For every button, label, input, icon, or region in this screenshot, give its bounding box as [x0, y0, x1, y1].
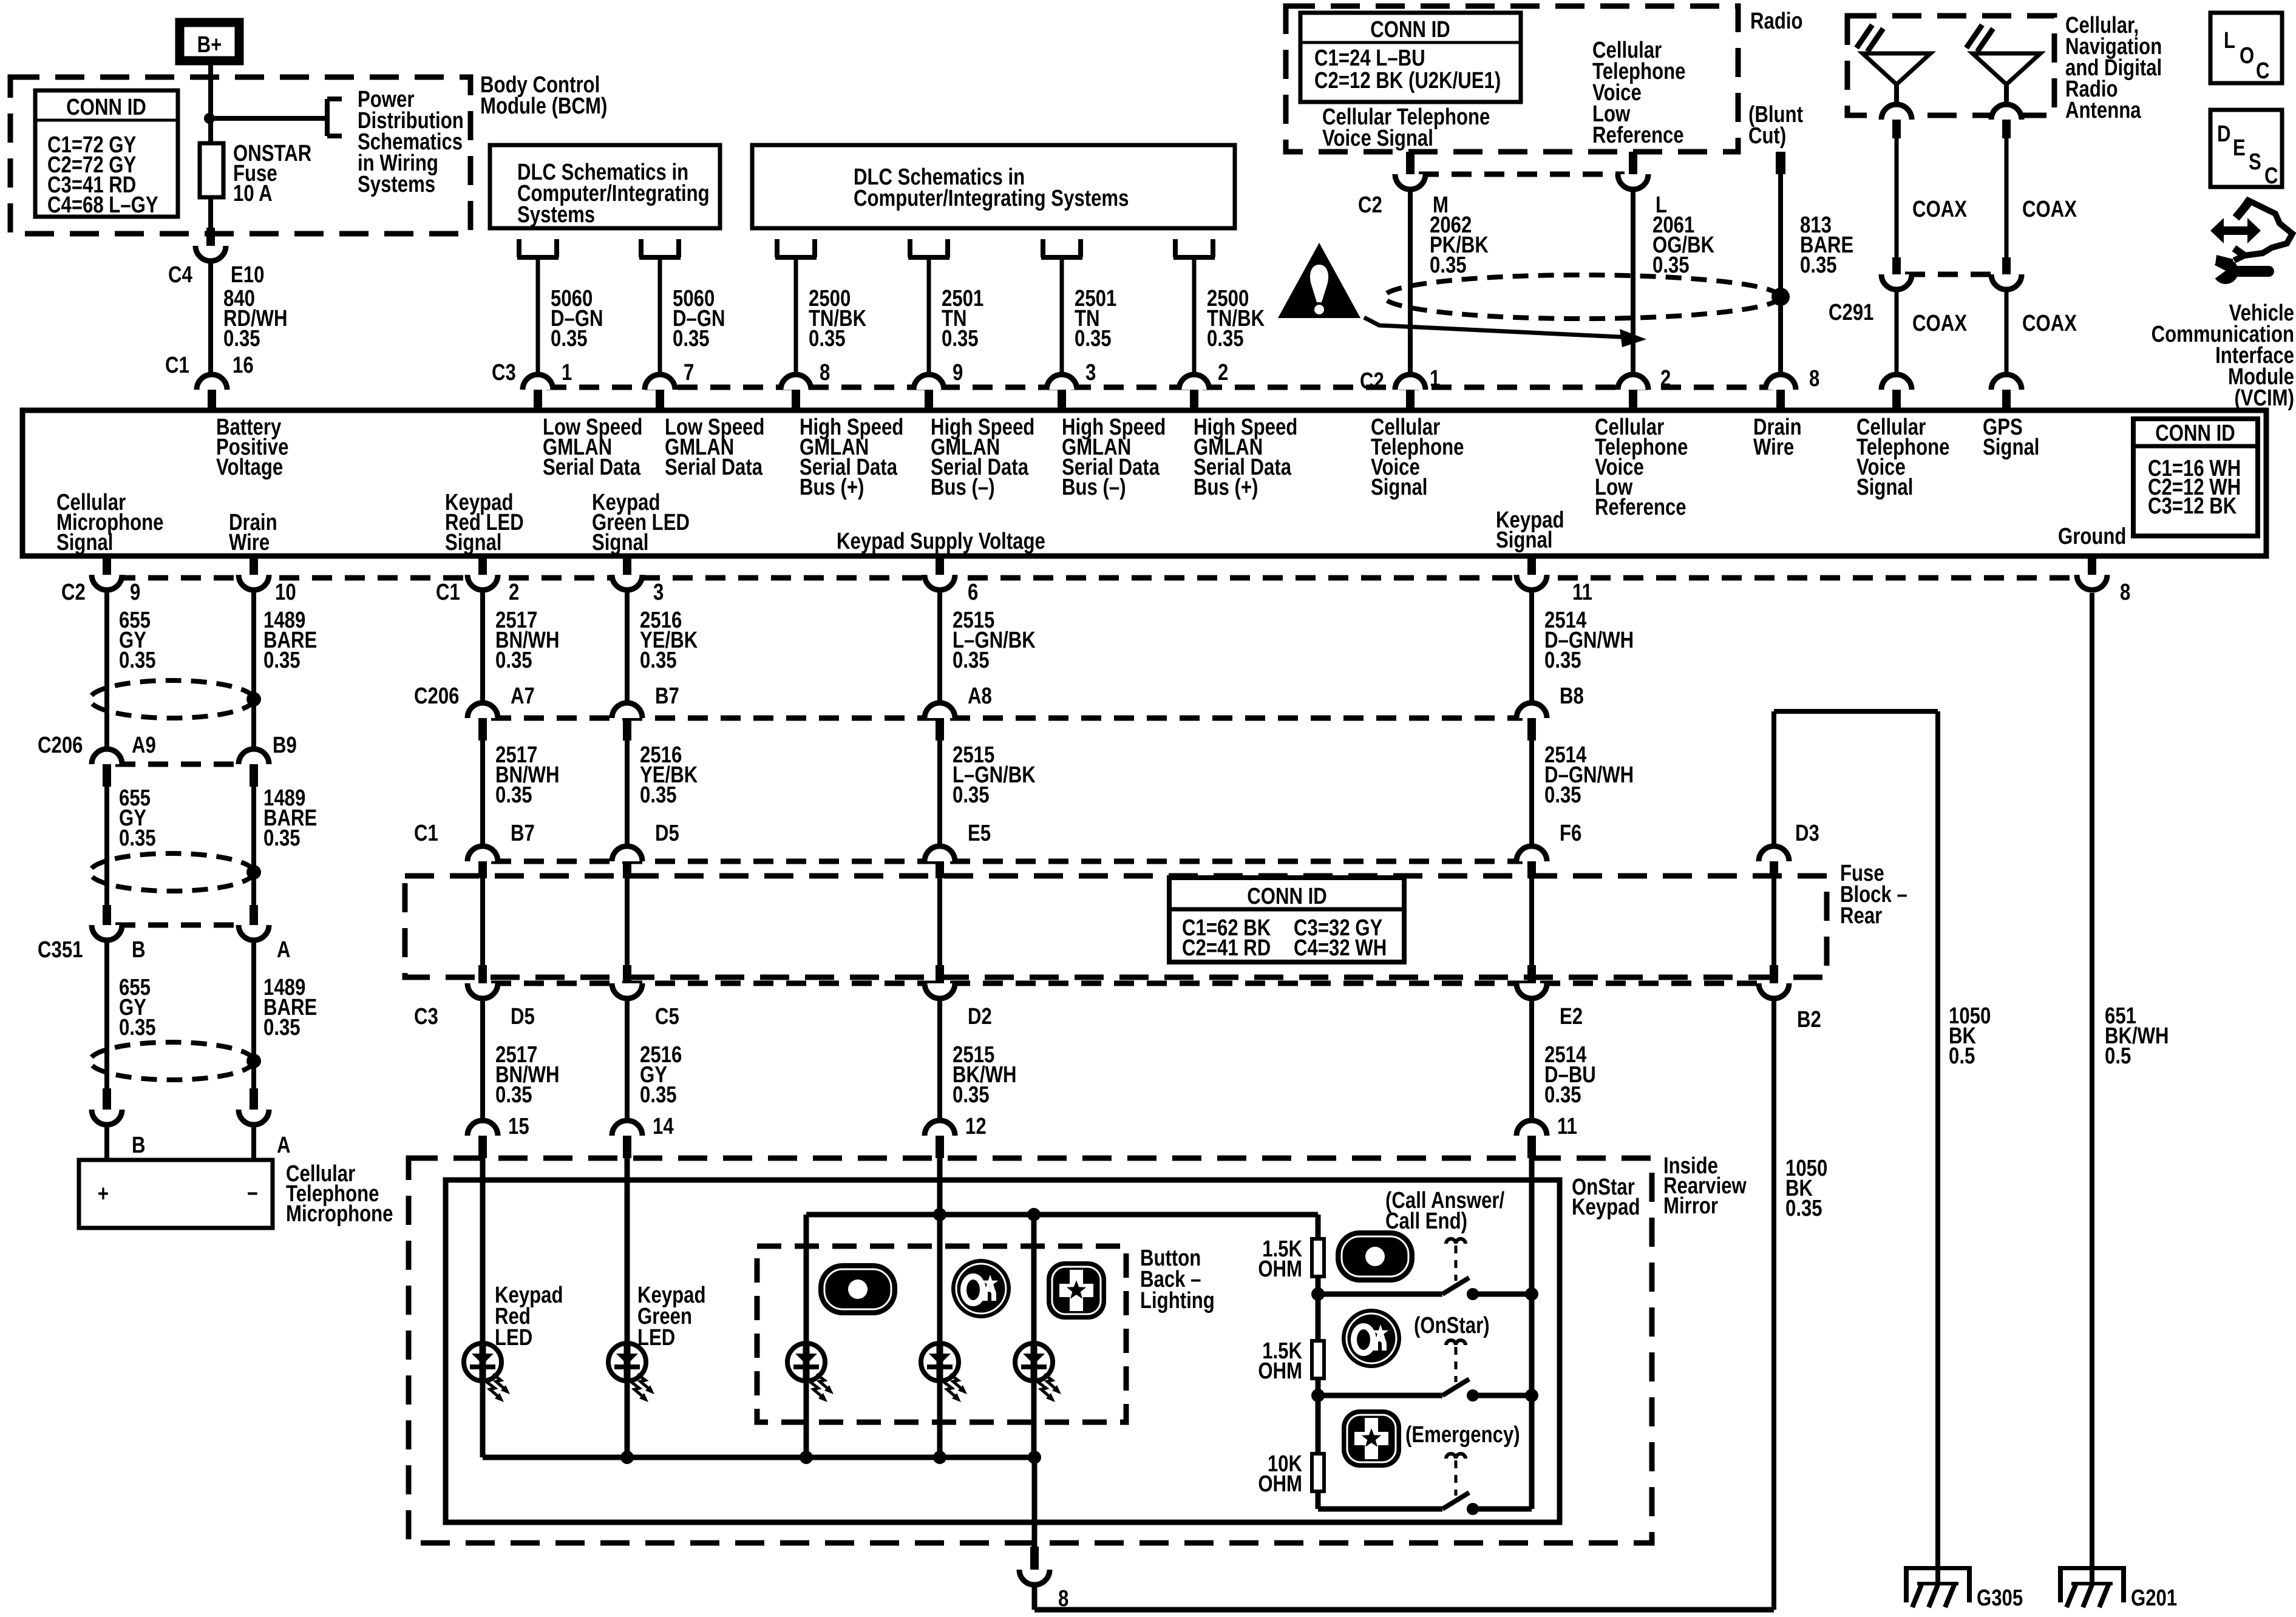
svg-text:+: + — [98, 1181, 109, 1207]
svg-text:B9: B9 — [273, 733, 297, 758]
svg-text:B8: B8 — [1560, 683, 1584, 709]
svg-text:LED: LED — [495, 1325, 532, 1351]
svg-text:OHM: OHM — [1258, 1471, 1302, 1497]
svg-text:C4=68 L–GY: C4=68 L–GY — [47, 192, 158, 218]
svg-text:8: 8 — [820, 360, 830, 385]
svg-text:0.35: 0.35 — [1785, 1196, 1822, 1221]
svg-text:0.35: 0.35 — [1207, 326, 1244, 351]
svg-text:11: 11 — [1572, 580, 1592, 605]
svg-text:Ground: Ground — [2058, 524, 2126, 549]
svg-text:Serial Data: Serial Data — [543, 455, 641, 480]
svg-text:A: A — [277, 937, 291, 963]
svg-text:Wire: Wire — [229, 530, 270, 555]
svg-text:CONN ID: CONN ID — [66, 95, 146, 120]
svg-text:Signal: Signal — [56, 530, 113, 555]
svg-text:0.35: 0.35 — [119, 1015, 156, 1040]
svg-text:C1=24 L–BU: C1=24 L–BU — [1314, 46, 1425, 71]
svg-text:Signal: Signal — [1371, 475, 1427, 500]
svg-text:8: 8 — [2120, 580, 2130, 605]
svg-text:B7: B7 — [511, 821, 535, 846]
svg-text:S: S — [2249, 149, 2261, 175]
svg-text:G305: G305 — [1977, 1585, 2023, 1611]
svg-text:Signal: Signal — [1856, 475, 1913, 500]
svg-text:Signal: Signal — [445, 530, 501, 555]
svg-text:Antenna: Antenna — [2065, 98, 2141, 123]
svg-text:Keypad: Keypad — [1572, 1195, 1640, 1220]
svg-text:CONN ID: CONN ID — [1247, 884, 1327, 909]
svg-text:A9: A9 — [132, 733, 156, 758]
svg-text:Cut): Cut) — [1748, 123, 1786, 149]
svg-text:B: B — [132, 937, 146, 963]
svg-text:A: A — [277, 1133, 291, 1158]
svg-text:0.35: 0.35 — [495, 1082, 532, 1108]
svg-text:Rear: Rear — [1840, 903, 1882, 929]
svg-text:B+: B+ — [197, 32, 222, 58]
svg-text:C3: C3 — [492, 360, 516, 385]
svg-text:D: D — [2217, 121, 2231, 147]
svg-text:0.35: 0.35 — [673, 326, 710, 351]
svg-text:C2=12 BK (U2K/UE1): C2=12 BK (U2K/UE1) — [1314, 68, 1501, 93]
svg-text:2: 2 — [1218, 360, 1228, 385]
svg-text:Systems: Systems — [358, 172, 435, 197]
svg-text:C2: C2 — [1360, 368, 1384, 394]
svg-text:C2=41 RD: C2=41 RD — [1182, 935, 1271, 961]
svg-text:D5: D5 — [511, 1004, 535, 1029]
svg-text:0.35: 0.35 — [640, 782, 677, 808]
svg-text:E: E — [2233, 135, 2246, 161]
svg-text:COAX: COAX — [1912, 311, 1967, 336]
svg-text:0.35: 0.35 — [551, 326, 588, 351]
svg-text:0.35: 0.35 — [1544, 648, 1581, 673]
svg-text:9: 9 — [953, 360, 963, 385]
svg-text:G201: G201 — [2131, 1585, 2177, 1611]
svg-text:COAX: COAX — [1912, 197, 1967, 222]
svg-text:0.35: 0.35 — [953, 648, 990, 673]
svg-text:14: 14 — [653, 1114, 674, 1139]
svg-text:CONN ID: CONN ID — [2155, 421, 2235, 446]
svg-text:0.35: 0.35 — [640, 1082, 677, 1108]
svg-text:11: 11 — [1557, 1114, 1577, 1139]
svg-text:Module (BCM): Module (BCM) — [480, 93, 607, 119]
svg-text:B7: B7 — [655, 683, 679, 709]
svg-text:16: 16 — [233, 353, 254, 378]
svg-text:L: L — [2224, 28, 2235, 53]
svg-text:E2: E2 — [1560, 1004, 1583, 1029]
svg-text:E10: E10 — [231, 262, 264, 288]
svg-text:Systems: Systems — [517, 202, 595, 228]
svg-text:OHM: OHM — [1258, 1358, 1302, 1384]
svg-text:COAX: COAX — [2022, 311, 2077, 336]
svg-text:0.35: 0.35 — [1652, 253, 1690, 278]
svg-text:C206: C206 — [38, 733, 83, 758]
svg-text:Lighting: Lighting — [1140, 1288, 1215, 1314]
svg-text:0.35: 0.35 — [119, 648, 156, 673]
svg-text:0.5: 0.5 — [2105, 1043, 2131, 1069]
svg-text:D3: D3 — [1795, 821, 1819, 846]
svg-text:D2: D2 — [968, 1004, 992, 1029]
svg-text:C4=32 WH: C4=32 WH — [1294, 935, 1387, 961]
svg-text:C291: C291 — [1829, 300, 1873, 325]
svg-text:1: 1 — [562, 360, 572, 385]
svg-text:C3: C3 — [414, 1004, 438, 1029]
svg-text:15: 15 — [508, 1114, 529, 1139]
svg-text:10 A: 10 A — [233, 181, 273, 206]
svg-text:0.35: 0.35 — [953, 782, 990, 808]
svg-text:2: 2 — [509, 580, 519, 605]
svg-text:10: 10 — [275, 580, 296, 605]
svg-text:(VCIM): (VCIM) — [2234, 385, 2294, 411]
svg-text:Wire: Wire — [1753, 435, 1794, 460]
svg-text:C3=12 BK: C3=12 BK — [2148, 493, 2237, 519]
svg-text:6: 6 — [968, 580, 978, 605]
svg-text:Signal: Signal — [592, 530, 648, 555]
svg-text:0.35: 0.35 — [1075, 326, 1112, 351]
svg-text:Bus (+): Bus (+) — [1194, 475, 1258, 500]
svg-text:Radio: Radio — [1750, 8, 1803, 34]
svg-text:Signal: Signal — [1983, 435, 2039, 460]
svg-text:Keypad Supply Voltage: Keypad Supply Voltage — [837, 529, 1045, 554]
svg-text:2: 2 — [1660, 366, 1671, 392]
svg-text:−: − — [247, 1181, 258, 1207]
svg-text:0.35: 0.35 — [1544, 782, 1581, 808]
svg-text:Voice Signal: Voice Signal — [1322, 126, 1433, 151]
svg-text:0.35: 0.35 — [1544, 1082, 1581, 1108]
svg-text:7: 7 — [684, 360, 694, 385]
svg-text:COAX: COAX — [2022, 197, 2077, 222]
svg-text:LED: LED — [637, 1325, 675, 1351]
svg-text:0.5: 0.5 — [1949, 1043, 1975, 1069]
svg-text:Serial Data: Serial Data — [665, 455, 763, 480]
svg-text:Computer/Integrating Systems: Computer/Integrating Systems — [854, 186, 1129, 211]
svg-text:Call End): Call End) — [1385, 1209, 1467, 1234]
svg-text:F6: F6 — [1560, 821, 1581, 846]
svg-text:3: 3 — [1085, 360, 1096, 385]
svg-text:Bus (–): Bus (–) — [931, 475, 995, 500]
svg-text:A8: A8 — [968, 683, 992, 709]
svg-text:0.35: 0.35 — [640, 648, 677, 673]
svg-text:C: C — [2256, 58, 2270, 84]
svg-text:CONN ID: CONN ID — [1370, 17, 1450, 42]
svg-text:C4: C4 — [168, 262, 192, 288]
svg-text:0.35: 0.35 — [119, 825, 156, 851]
svg-text:Bus (–): Bus (–) — [1062, 475, 1126, 500]
svg-text:C5: C5 — [655, 1004, 679, 1029]
svg-text:C: C — [2264, 163, 2278, 189]
svg-text:C206: C206 — [414, 683, 459, 709]
svg-text:0.35: 0.35 — [1800, 253, 1837, 278]
svg-text:C1: C1 — [436, 580, 460, 605]
svg-text:B2: B2 — [1797, 1007, 1821, 1032]
svg-text:OHM: OHM — [1258, 1256, 1302, 1282]
svg-text:C2: C2 — [61, 580, 86, 605]
svg-text:Microphone: Microphone — [286, 1201, 393, 1227]
svg-text:O: O — [2240, 43, 2254, 69]
svg-text:(OnStar): (OnStar) — [1414, 1313, 1490, 1338]
svg-text:0.35: 0.35 — [263, 648, 301, 673]
svg-text:0.35: 0.35 — [942, 326, 979, 351]
svg-text:0.35: 0.35 — [263, 825, 301, 851]
svg-text:1: 1 — [1430, 366, 1440, 392]
svg-text:C351: C351 — [38, 937, 83, 963]
svg-text:0.35: 0.35 — [263, 1015, 301, 1040]
svg-text:0.35: 0.35 — [953, 1082, 990, 1108]
svg-text:E5: E5 — [968, 821, 991, 846]
svg-text:Signal: Signal — [1496, 527, 1552, 553]
svg-text:0.35: 0.35 — [1430, 253, 1467, 278]
svg-text:Mirror: Mirror — [1663, 1193, 1718, 1219]
svg-text:3: 3 — [653, 580, 664, 605]
svg-text:0.35: 0.35 — [223, 326, 260, 351]
svg-text:0.35: 0.35 — [495, 782, 532, 808]
svg-text:0.35: 0.35 — [809, 326, 846, 351]
svg-text:Reference: Reference — [1592, 123, 1684, 148]
svg-text:D5: D5 — [655, 821, 679, 846]
svg-text:A7: A7 — [511, 683, 535, 709]
svg-text:12: 12 — [965, 1114, 987, 1139]
svg-text:9: 9 — [130, 580, 140, 605]
svg-text:C1: C1 — [165, 353, 189, 378]
svg-text:(Emergency): (Emergency) — [1405, 1422, 1520, 1448]
svg-text:Reference: Reference — [1595, 495, 1686, 520]
svg-text:8: 8 — [1058, 1586, 1068, 1612]
svg-text:Bus (+): Bus (+) — [800, 475, 864, 500]
svg-text:B: B — [132, 1133, 146, 1158]
svg-text:C2: C2 — [1358, 192, 1382, 218]
svg-text:8: 8 — [1809, 366, 1819, 392]
svg-text:0.35: 0.35 — [495, 648, 532, 673]
svg-text:Voltage: Voltage — [216, 455, 283, 480]
svg-text:C1: C1 — [414, 821, 438, 846]
